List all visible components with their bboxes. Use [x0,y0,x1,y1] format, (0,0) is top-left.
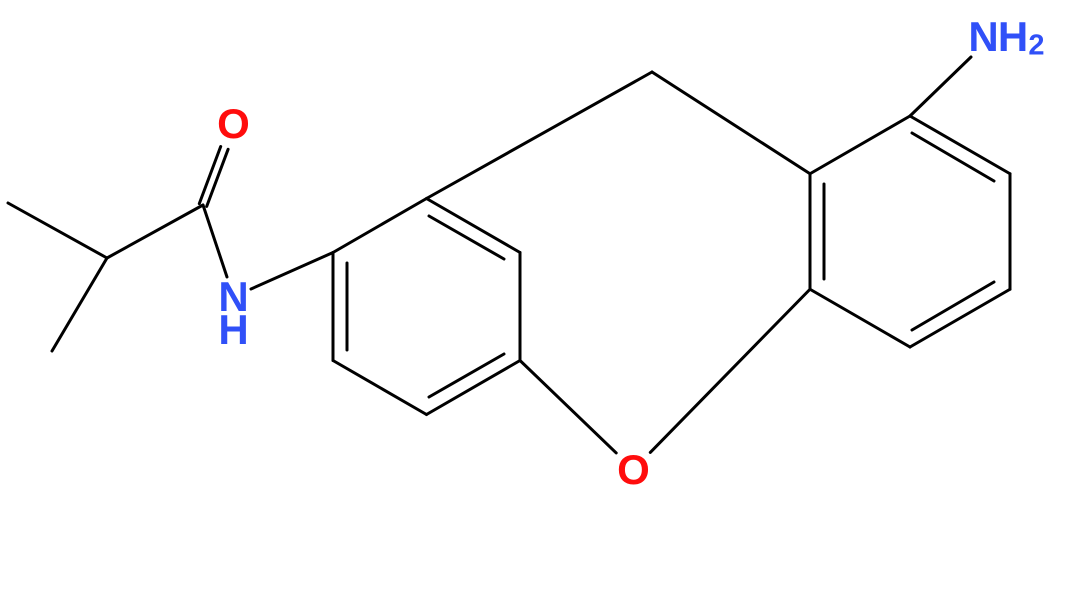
svg-text:O: O [217,100,250,147]
svg-text:2: 2 [1028,30,1044,62]
svg-text:H: H [998,13,1028,60]
svg-text:N: N [968,13,998,60]
svg-text:O: O [617,446,650,493]
svg-text:H: H [218,306,248,353]
